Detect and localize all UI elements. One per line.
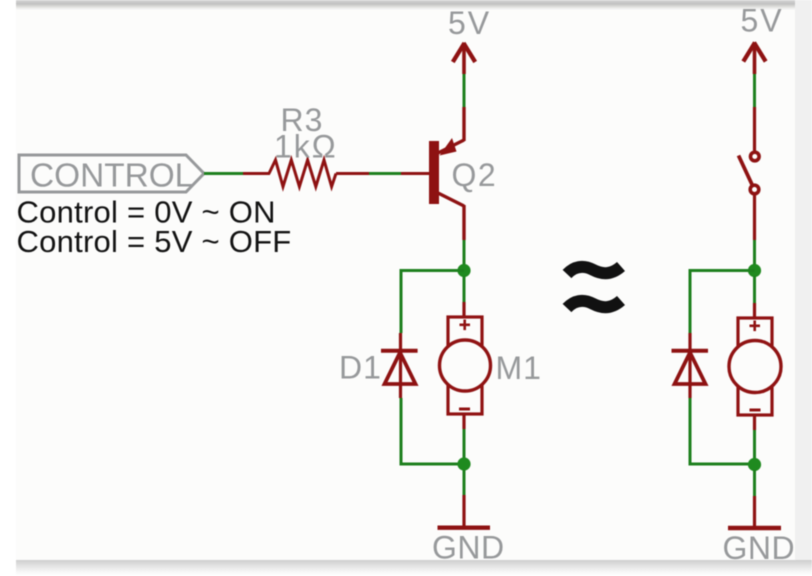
wire: collector to node (net) [463, 240, 466, 270]
approx-equal symbol [567, 267, 621, 309]
motor M1 pin bottom [462, 414, 465, 429]
svg-text:CONTROL: CONTROL [30, 158, 193, 195]
wire: CONTROL flag to resistor (net) [204, 172, 243, 175]
wire: switch top pin [753, 107, 756, 151]
svg-text:GND: GND [723, 530, 796, 566]
wire: switch to node (net) [753, 240, 756, 270]
wire: node to motor (net) [463, 276, 466, 302]
svg-text:1kΩ: 1kΩ [274, 129, 338, 165]
node junction top left-circuit [457, 264, 470, 277]
node junction top right-circuit [748, 264, 761, 277]
flyback diode right [672, 351, 709, 398]
svg-text:5V: 5V [741, 3, 784, 39]
wire: motor to bottom node (net) [463, 429, 466, 463]
wire: switch bottom pin [753, 196, 756, 241]
GND pin right [753, 496, 756, 526]
svg-text:D1: D1 [339, 350, 382, 386]
diode D1 [381, 351, 418, 398]
svg-text:Control = 5V ~ OFF: Control = 5V ~ OFF [17, 224, 292, 259]
diode D1 top pin [399, 333, 402, 352]
motor M1 [440, 317, 491, 414]
switch S1 [739, 152, 760, 194]
wire: node to GND right (net) [753, 470, 756, 496]
supply 5V left arrow [453, 43, 475, 74]
wire: resistor right pin [336, 172, 369, 175]
wire: right motor to bottom node (net) [753, 430, 756, 464]
wire: 5V to emitter (net) [463, 74, 466, 107]
right grey band [795, 0, 812, 560]
net label flag CONTROL [19, 155, 204, 195]
wire: node to diode branch (net) [401, 271, 464, 334]
node junction bottom right-circuit [748, 458, 761, 471]
wire: node to right motor (net) [753, 276, 756, 303]
wire: node to right diode branch (net) [690, 271, 755, 334]
ground symbol left [438, 526, 491, 530]
ground symbol right [728, 526, 781, 530]
svg-text:M1: M1 [496, 350, 542, 386]
wire: 5V to switch (net) [753, 74, 756, 107]
bottom shadow band [16, 560, 812, 576]
motor right [729, 318, 781, 415]
node junction bottom left-circuit [457, 457, 470, 470]
right diode top pin [688, 333, 691, 352]
wire: resistor left pin [243, 172, 270, 175]
transistor Q2 (PNP) [429, 107, 464, 240]
wire: diode bottom to node (net) [401, 398, 464, 464]
supply 5V right arrow [743, 43, 765, 75]
right motor pin bottom [753, 415, 756, 430]
GND pin left [462, 495, 465, 526]
svg-text:Q2: Q2 [452, 157, 498, 193]
wire: net to transistor base [369, 172, 401, 175]
top shadow band [16, 0, 795, 10]
motor M1 pin top [462, 302, 465, 317]
svg-text:GND: GND [432, 530, 505, 566]
wire: transistor base pin [401, 172, 429, 175]
resistor R3 zigzag [269, 160, 336, 187]
wire: right diode bottom to node (net) [690, 398, 755, 464]
right motor pin top [753, 303, 756, 318]
svg-text:5V: 5V [448, 5, 491, 41]
wire: node to GND (net) [463, 470, 466, 495]
